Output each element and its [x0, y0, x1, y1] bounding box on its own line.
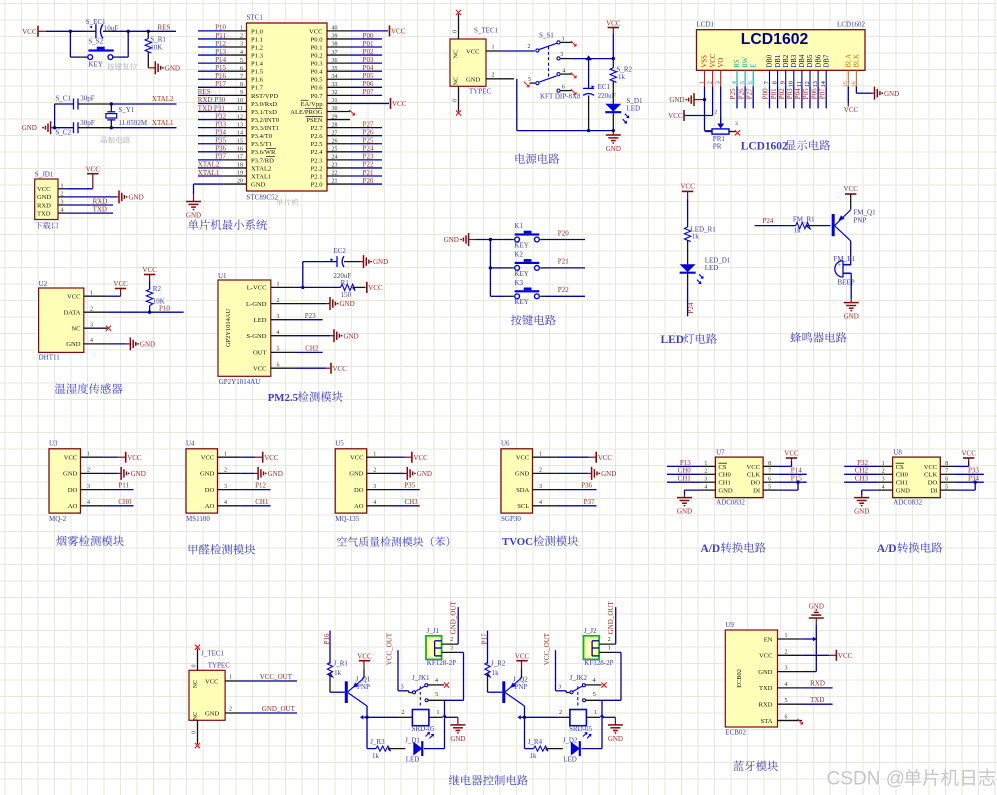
pin 1 CS of U7 (left)	[701, 461, 727, 471]
svg-text:1k: 1k	[794, 226, 802, 234]
gray label 晶振电路	[101, 136, 131, 143]
wire connector pin2 GND_OUT	[442, 601, 459, 645]
power port VCC (buzzer)	[843, 185, 858, 210]
pin 2 CH0 of U8 (left)	[878, 469, 909, 479]
svg-text:2: 2	[539, 468, 542, 474]
ground (crystal)	[22, 121, 55, 134]
svg-text:GP2Y1014AU: GP2Y1014AU	[225, 309, 232, 347]
svg-text:KEY: KEY	[514, 270, 528, 278]
net label P20 (right MCU)	[363, 177, 374, 185]
svg-text:P33: P33	[215, 120, 226, 128]
svg-text:GND: GND	[515, 471, 530, 478]
pin 1 EN of U9	[764, 633, 802, 643]
svg-text:A/D: A/D	[877, 543, 897, 555]
pin 0 top of S_TEC1	[453, 10, 462, 39]
wire collector to buzzer	[850, 241, 852, 265]
svg-text:P2.4: P2.4	[311, 149, 324, 156]
svg-text:P0.7: P0.7	[311, 93, 324, 100]
svg-text:P12: P12	[255, 482, 266, 490]
svg-text:S_R1: S_R1	[150, 36, 166, 44]
svg-text:P2.7: P2.7	[311, 125, 324, 132]
wire net CH2 to U8 pin2	[844, 467, 878, 475]
svg-text:DB7: DB7	[823, 54, 830, 67]
svg-text:6: 6	[562, 85, 565, 91]
svg-text:R2: R2	[153, 285, 162, 293]
svg-text:STA: STA	[761, 718, 773, 725]
svg-text:2: 2	[492, 72, 495, 78]
power port VCC (EA/Vpp pin31)	[350, 98, 407, 109]
wire connector pin1	[599, 645, 621, 652]
ground (U3 pin2)	[104, 467, 146, 480]
pin 6 VCC of U1	[253, 362, 294, 372]
svg-text:P0.3: P0.3	[311, 61, 324, 68]
svg-text:1: 1	[704, 461, 707, 467]
net label P35 (left MCU)	[215, 137, 226, 145]
svg-text:P05: P05	[802, 88, 810, 99]
svg-text:K3: K3	[514, 279, 523, 287]
pin 3 LED of U1	[254, 314, 295, 324]
svg-text:NC: NC	[453, 77, 460, 86]
svg-text:8: 8	[945, 461, 948, 467]
svg-text:DO: DO	[751, 480, 761, 487]
wire connector pin1	[442, 645, 464, 652]
svg-text:0: 0	[192, 731, 198, 734]
net label TXD P31 (left MCU)	[198, 104, 226, 112]
svg-text:5: 5	[593, 692, 596, 698]
svg-text:VCC: VCC	[680, 183, 695, 191]
svg-text:U5: U5	[335, 439, 344, 447]
pin 3 NC of U2	[71, 322, 107, 332]
svg-text:1: 1	[698, 81, 705, 84]
svg-text:2: 2	[528, 44, 531, 50]
MCU U-STC1 designator	[247, 14, 264, 22]
svg-text:GND: GND	[606, 145, 621, 153]
wire pin3 SDA net P36	[556, 482, 597, 490]
pin 2 VCC of U9	[759, 649, 802, 659]
capacitor EC2 220uF	[303, 247, 360, 287]
net label P05 (right MCU)	[363, 72, 374, 80]
svg-text:RS: RS	[734, 59, 741, 68]
pin 1 VCC of S_JD1	[37, 183, 66, 193]
wire net CH3 to U8 pin3	[844, 475, 878, 483]
wire switch pin5 to connector	[442, 652, 463, 717]
svg-text:VCC_OUT: VCC_OUT	[260, 673, 293, 681]
svg-text:GND: GND	[758, 669, 773, 676]
ground (LCD left)	[669, 93, 704, 106]
svg-text:P1.5: P1.5	[251, 69, 264, 76]
svg-text:11: 11	[796, 81, 803, 87]
svg-text:VCC: VCC	[515, 653, 530, 661]
svg-text:LED: LED	[661, 334, 684, 346]
svg-text:P01: P01	[363, 40, 374, 48]
pin 4 P1.3 of STC1	[198, 50, 264, 60]
overline marks for WR RD EA PROG PSEN	[266, 100, 323, 156]
svg-text:J_TEC1: J_TEC1	[201, 650, 224, 658]
svg-text:U4: U4	[186, 439, 195, 447]
pin 16 BLK of LCD1602	[850, 54, 860, 87]
svg-text:VCC: VCC	[844, 106, 859, 114]
svg-text:GND: GND	[896, 488, 911, 495]
svg-text:GND: GND	[129, 194, 144, 202]
power port VCC (U4 pin1)	[241, 452, 279, 463]
svg-text:VCC: VCC	[598, 454, 613, 462]
svg-text:P0.5: P0.5	[311, 77, 324, 84]
capacitor S_C1 30pF	[55, 94, 112, 109]
label MQ-2	[49, 515, 67, 523]
svg-text:9: 9	[780, 81, 787, 84]
svg-text:U6: U6	[501, 439, 510, 447]
wire collector to relay rail	[518, 706, 527, 749]
svg-text:P34: P34	[215, 128, 226, 136]
no-connect STA pin6	[778, 719, 803, 724]
svg-text:NC: NC	[453, 50, 460, 59]
stub pin1 S_S1 no-connect	[561, 41, 577, 46]
svg-text:VCC: VCC	[86, 166, 101, 174]
wire net P13 to U7 pin1	[667, 459, 701, 467]
svg-text:P1.7: P1.7	[251, 85, 264, 92]
svg-text:P2.3: P2.3	[311, 157, 324, 164]
svg-text:FM_B1: FM_B1	[834, 255, 856, 263]
pin 32 P0.7 of STC1	[311, 90, 382, 100]
pin 1 VCC of U5	[350, 451, 390, 461]
svg-text:A/D: A/D	[701, 543, 721, 555]
wire pin20 to ground	[194, 184, 224, 201]
svg-text:3: 3	[735, 121, 738, 127]
svg-text:2: 2	[373, 468, 376, 474]
svg-text:S_C1: S_C1	[55, 94, 71, 102]
svg-text:8: 8	[768, 461, 771, 467]
svg-text:ALE/PROG: ALE/PROG	[290, 109, 322, 116]
svg-text:S_S1: S_S1	[539, 32, 554, 40]
wire GND pin4 of U7	[685, 490, 701, 498]
svg-text:5: 5	[528, 77, 531, 83]
svg-text:P10: P10	[215, 24, 226, 32]
svg-text:3: 3	[61, 200, 64, 206]
wire connector pin2 GND_OUT	[599, 601, 616, 645]
pin 40 VCC of STC1	[309, 26, 350, 36]
svg-text:SGP30: SGP30	[501, 515, 521, 523]
sensor U3 MQ-2 body	[49, 439, 81, 513]
svg-text:GND: GND	[444, 236, 459, 244]
pin 12 P3.2/INT0 of STC1	[198, 114, 280, 124]
label MQ-135	[335, 515, 360, 523]
svg-text:ECB02: ECB02	[736, 669, 743, 688]
svg-text:0: 0	[453, 30, 459, 33]
wire XTAL2 net	[110, 95, 177, 106]
svg-text:P0.6: P0.6	[311, 85, 324, 92]
svg-text:VCC: VCC	[64, 455, 78, 462]
net label P17 (left MCU)	[215, 80, 226, 88]
net label P02 (right MCU)	[363, 48, 374, 56]
gray label 单片机	[276, 199, 298, 206]
svg-text:P3.0/RxD: P3.0/RxD	[251, 101, 277, 108]
svg-text:J_R4: J_R4	[528, 738, 543, 746]
ground (U6 pin2)	[556, 467, 616, 480]
svg-text:P0.2: P0.2	[311, 52, 323, 59]
pin 6 DO of U7 (right)	[751, 477, 778, 487]
module U9 ECB02 body	[725, 621, 777, 727]
svg-text:P2.6: P2.6	[311, 133, 324, 140]
wire/net label P02 (LCD pin 9)	[778, 86, 786, 108]
svg-text:DB3: DB3	[791, 54, 798, 67]
svg-text:P1.3: P1.3	[251, 52, 264, 59]
svg-text:LCD1602: LCD1602	[741, 141, 788, 153]
connector J_TEC1 TYPEC body	[189, 650, 230, 721]
connector J_J1 KF128-2P	[426, 627, 456, 667]
resistor J_R2 1k	[485, 660, 506, 693]
svg-text:GND: GND	[66, 341, 81, 348]
svg-text:VCC_OUT: VCC_OUT	[543, 632, 551, 665]
svg-text:4: 4	[539, 500, 542, 506]
svg-text:GND: GND	[186, 212, 201, 220]
svg-text:AO: AO	[354, 503, 364, 510]
pin 8 VCC of U8 (right)	[924, 461, 955, 471]
pin 7 CLK of U8 (right)	[924, 469, 955, 479]
svg-text:GND: GND	[349, 471, 364, 478]
svg-text:BEEP: BEEP	[838, 278, 855, 286]
pin 18 XTAL2 of STC1	[198, 163, 271, 173]
svg-text:3: 3	[90, 322, 93, 328]
pin 2 GND of U5	[349, 468, 390, 478]
svg-text:5: 5	[768, 485, 771, 491]
wire pin3 DO net P12	[241, 482, 271, 490]
ground (power circuit)	[606, 131, 621, 153]
title 空气质量检测模块（苯）	[337, 537, 449, 547]
title 蓝牙模块	[733, 761, 778, 772]
svg-text:DB5: DB5	[807, 54, 814, 67]
svg-text:P37: P37	[215, 153, 226, 161]
svg-text:P2.2: P2.2	[311, 165, 323, 172]
power port VCC (J_Q2 emitter)	[515, 653, 530, 678]
svg-text:VCC: VCC	[201, 455, 215, 462]
pin 13 DB6 of LCD1602	[812, 54, 822, 87]
wire/net label P26 (LCD pin 5)	[737, 86, 745, 108]
svg-text:7: 7	[768, 469, 771, 475]
svg-text:J_J2: J_J2	[584, 627, 597, 635]
svg-text:1: 1	[87, 451, 90, 457]
title LED灯电路	[661, 333, 717, 346]
svg-text:CH1: CH1	[896, 480, 908, 487]
svg-text:FM_R1: FM_R1	[793, 215, 815, 223]
pin 1 L-VCC of U1	[247, 282, 295, 292]
pin 14 DB7 of LCD1602	[820, 54, 830, 87]
svg-text:3: 3	[882, 477, 885, 483]
svg-text:1: 1	[594, 710, 597, 716]
svg-text:GND: GND	[251, 181, 266, 188]
wire crystal left rail	[53, 104, 56, 129]
svg-text:PR: PR	[713, 142, 722, 150]
net label TXD wire	[66, 206, 113, 214]
svg-text:LED: LED	[406, 756, 420, 764]
wire switch pin5 to connector	[600, 652, 621, 717]
potentiometer PR1	[705, 110, 738, 151]
label ADC0832 (U8)	[893, 499, 922, 507]
net label P12 (left MCU)	[215, 40, 226, 48]
svg-text:FM_Q1: FM_Q1	[853, 209, 876, 217]
svg-text:J_D1: J_D1	[405, 736, 420, 744]
svg-text:RW: RW	[742, 56, 749, 67]
net label P17 (relay control)	[480, 631, 488, 664]
svg-text:DO: DO	[928, 480, 938, 487]
power port VCC (U5 pin1)	[390, 452, 428, 463]
svg-text:P03: P03	[786, 88, 794, 99]
svg-text:220uF: 220uF	[333, 272, 351, 280]
svg-text:4: 4	[224, 500, 227, 506]
ground (download)	[66, 190, 144, 203]
pin 4 AO of U3	[68, 500, 104, 510]
title 继电器控制电路	[449, 775, 528, 786]
svg-text:GND: GND	[466, 76, 481, 83]
ground (reset)	[148, 61, 180, 74]
svg-text:P01: P01	[770, 88, 778, 99]
pin 7 CLK of U7 (right)	[747, 469, 778, 479]
svg-text:VCC: VCC	[838, 652, 853, 660]
pin 38 P0.1 of STC1	[311, 42, 382, 52]
svg-text:11.0592M: 11.0592M	[118, 119, 147, 127]
svg-text:1: 1	[229, 675, 232, 681]
svg-text:GND_OUT: GND_OUT	[262, 705, 296, 713]
wire DO pin6 net P34	[955, 475, 984, 484]
svg-text:CH3: CH3	[855, 475, 869, 483]
svg-text:GND: GND	[844, 313, 859, 321]
svg-text:2: 2	[882, 469, 885, 475]
svg-text:1k: 1k	[692, 233, 700, 241]
net label P22 (right MCU)	[363, 161, 374, 169]
power port VCC (LCD)	[668, 110, 684, 121]
svg-text:P04: P04	[363, 64, 374, 72]
LED diode J_D1	[405, 717, 444, 763]
net label P06 (right MCU)	[363, 80, 374, 88]
svg-text:OUT: OUT	[253, 350, 267, 357]
pin 25 P2.4 of STC1	[311, 147, 382, 157]
net label P36 (left MCU)	[215, 145, 226, 153]
pin 6 E of LCD1602	[747, 63, 757, 86]
LCD1 designator	[697, 21, 715, 29]
svg-text:S_C2: S_C2	[55, 129, 71, 137]
svg-text:VCC: VCC	[466, 49, 480, 56]
dip switch S_S1 KFT DIP-8X8	[528, 32, 566, 93]
watermark CSDN	[827, 769, 997, 791]
svg-text:1: 1	[61, 183, 64, 189]
pin 7 DB0 of LCD1602	[763, 54, 773, 86]
svg-text:U9: U9	[725, 621, 734, 629]
pin 17 P3.7/RD of STC1	[198, 155, 274, 165]
svg-text:P14: P14	[215, 56, 226, 64]
pin 14 P3.4/T0 of STC1	[198, 130, 273, 140]
pin 1 VCC of U4	[201, 451, 241, 461]
svg-text:GND: GND	[165, 64, 180, 72]
capacitor EC1 220uF	[583, 59, 616, 131]
wire switch pin3 to VCC node	[561, 55, 615, 60]
svg-text:3: 3	[558, 685, 561, 691]
wire pin4 AO net CH0	[104, 498, 134, 506]
svg-text:1: 1	[562, 36, 565, 42]
svg-text:L-GND: L-GND	[246, 301, 267, 308]
svg-text:GND: GND	[22, 124, 37, 132]
svg-text:TXD: TXD	[759, 685, 773, 692]
pin 8 P1.7 of STC1	[198, 82, 264, 92]
svg-text:GND_OUT: GND_OUT	[607, 601, 615, 635]
svg-text:P2.1: P2.1	[311, 173, 323, 180]
svg-text:U7: U7	[716, 449, 725, 457]
svg-text:CLK: CLK	[924, 472, 937, 479]
svg-text:0: 0	[453, 99, 459, 102]
svg-text:GND: GND	[340, 300, 355, 308]
svg-text:DB2: DB2	[783, 54, 790, 67]
svg-text:U8: U8	[893, 449, 902, 457]
svg-text:CS: CS	[896, 464, 904, 471]
no-connect switch pin4	[601, 683, 606, 688]
svg-text:P26: P26	[737, 88, 745, 99]
pin 3 DO of U5	[354, 484, 390, 494]
ground (L-GND pin2)	[294, 297, 354, 310]
resistor S_R1 10K	[145, 31, 166, 68]
svg-text:K1: K1	[514, 222, 523, 230]
title 单片机最小系统	[188, 219, 267, 230]
pin 3 VO of LCD1602	[715, 58, 725, 87]
svg-text:DB1: DB1	[775, 55, 782, 68]
resistor J_R3 1k	[367, 738, 405, 760]
net label P14 (left MCU)	[215, 56, 226, 64]
wire/net label P25 (LCD pin 4)	[729, 86, 737, 108]
net label P21	[558, 258, 569, 266]
wire/net label P04 (LCD pin 11)	[794, 86, 802, 108]
MCU STC89C52 body	[247, 23, 328, 191]
pin 1 CS of U8 (left)	[878, 461, 904, 471]
svg-text:GND: GND	[373, 258, 388, 266]
svg-text:P13: P13	[215, 48, 226, 56]
net label P37 (left MCU)	[215, 153, 226, 161]
pin 5 DI of U8 (right)	[930, 485, 955, 495]
svg-text:VCC: VCC	[413, 454, 428, 462]
svg-text:EA/Vpp: EA/Vpp	[301, 101, 324, 108]
pin 20 GND of STC1	[223, 179, 265, 189]
net label RXD P30 (left MCU)	[198, 96, 226, 104]
svg-text:6: 6	[945, 477, 948, 483]
svg-text:5: 5	[739, 81, 746, 84]
pin 1 VCC of U2	[67, 290, 107, 300]
svg-text:4: 4	[785, 682, 788, 688]
pin NC/GND of J_TEC1 / GND_OUT	[192, 705, 297, 720]
svg-text:1: 1	[492, 45, 495, 51]
power port VCC (pin40)	[350, 25, 406, 36]
net label P04 (right MCU)	[363, 64, 374, 72]
svg-text:P32: P32	[857, 459, 868, 467]
svg-text:VCC: VCC	[113, 280, 128, 288]
net label P25 (right MCU)	[363, 137, 374, 145]
svg-text:4: 4	[373, 500, 376, 506]
svg-text:VCC: VCC	[391, 28, 406, 36]
pin 31 EA/Vpp of STC1	[301, 98, 350, 108]
svg-text:VCC: VCC	[784, 449, 799, 457]
svg-text:CH1: CH1	[678, 475, 692, 483]
svg-text:VCC: VCC	[759, 653, 773, 660]
svg-text:P1.2: P1.2	[251, 44, 263, 51]
ground (relay)	[602, 717, 623, 743]
svg-text:P06: P06	[363, 80, 374, 88]
sensor U2 DHT11 body	[39, 280, 84, 352]
svg-text:XTAL2: XTAL2	[251, 165, 271, 172]
LCD1602 body	[697, 30, 866, 71]
pin 2 GND of U3	[63, 468, 104, 478]
svg-text:PNP: PNP	[357, 683, 370, 691]
pin 8 VCC of U7 (right)	[747, 461, 778, 471]
svg-text:4: 4	[61, 208, 64, 214]
svg-text:P24: P24	[687, 302, 695, 313]
svg-text:DO: DO	[354, 487, 364, 494]
svg-text:KFT DIP-8X8: KFT DIP-8X8	[540, 92, 581, 100]
svg-text:RST/VPD: RST/VPD	[251, 93, 278, 100]
